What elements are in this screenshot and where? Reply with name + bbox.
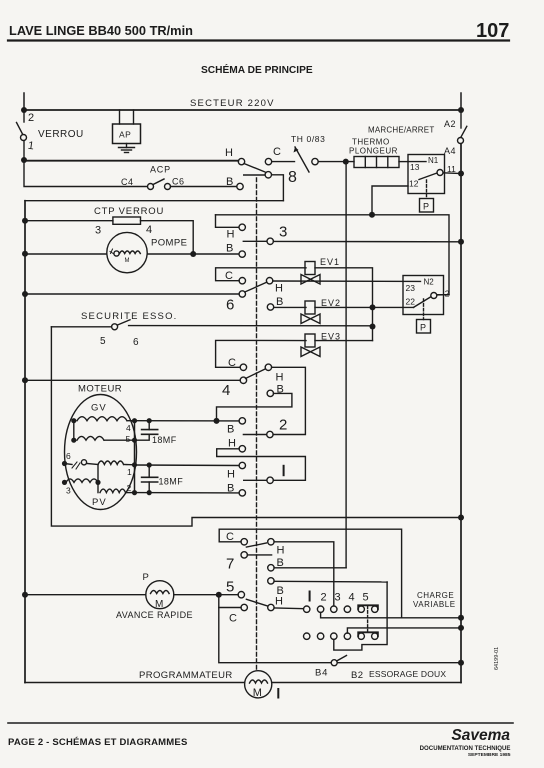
contact H terminal row5 [268, 604, 274, 610]
svg-text:4: 4 [126, 423, 131, 433]
pin 13 [408, 161, 426, 163]
svg-text:M: M [253, 687, 262, 699]
svg-text:SEPTEMBRE 1985: SEPTEMBRE 1985 [468, 752, 511, 758]
contact C terminal row7 [241, 539, 247, 545]
node EV junction 2 [370, 324, 376, 330]
header rule [8, 39, 509, 41]
wire CTP feed line [25, 200, 283, 202]
pin 11 wire to right rail [443, 172, 461, 175]
wire EV2 right to N2 pin22 [315, 306, 414, 308]
winding PV 2 [97, 482, 99, 492]
wire pin2 to right rail [321, 612, 461, 617]
svg-text:B2: B2 [351, 670, 363, 681]
contact main terminal row5 [238, 592, 244, 598]
wire C5 to feed vertical [219, 607, 241, 609]
node rail y627 [458, 625, 464, 631]
svg-text:N1: N1 [428, 156, 439, 165]
contact H terminal row7 [268, 539, 274, 545]
node 12-bus junction [369, 212, 375, 218]
contact common row2 [267, 431, 273, 437]
wire EV1 right loop down [315, 268, 373, 341]
svg-text:H: H [275, 283, 283, 295]
node rail y617 [458, 615, 464, 621]
contact C terminal row6 [239, 278, 245, 284]
svg-text:3: 3 [66, 486, 71, 496]
svg-text:C: C [228, 357, 236, 369]
svg-text:C: C [273, 146, 281, 158]
wire pompe line [25, 253, 239, 255]
footer rule [8, 722, 513, 724]
contact B terminal row4 [267, 390, 273, 396]
blade row3 [243, 240, 266, 242]
winding GV aux [71, 438, 76, 443]
svg-text:7: 7 [226, 556, 234, 573]
wire row5 B / charge box top [274, 580, 387, 583]
svg-text:2: 2 [28, 112, 34, 124]
dashed programmer line [256, 178, 258, 671]
pressostat box P (N2) [417, 320, 431, 334]
svg-text:MARCHE/ARRET: MARCHE/ARRET [368, 126, 434, 135]
wire row2 common loop to row4 H [272, 367, 306, 434]
svg-text:ESSORAGE DOUX: ESSORAGE DOUX [369, 669, 446, 679]
node TH junction [343, 159, 349, 165]
bottom border line [25, 682, 245, 684]
wire securite down-around to motor line [51, 327, 461, 526]
contact common row6 [239, 291, 245, 297]
svg-text:P: P [143, 572, 149, 583]
svg-text:18MF: 18MF [159, 477, 184, 487]
pins row A [304, 606, 310, 612]
svg-text:C4: C4 [121, 177, 134, 187]
svg-text:5: 5 [226, 579, 234, 596]
svg-text:B: B [226, 243, 233, 255]
node rail row4 [22, 377, 28, 383]
wire row3 common to right rail [273, 240, 461, 242]
svg-text:22: 22 [406, 297, 416, 307]
svg-text:PROGRAMMATEUR: PROGRAMMATEUR [139, 670, 233, 681]
contact B terminal (ACP) [237, 183, 243, 189]
svg-text:SECTEUR 220V: SECTEUR 220V [190, 98, 275, 109]
svg-text:5: 5 [126, 434, 131, 444]
svg-text:64199-01: 64199-01 [494, 647, 500, 670]
wire motor-4 line to row2 B [135, 420, 240, 422]
wire CTP out down to pompe line [141, 221, 194, 254]
svg-text:ACP: ACP [150, 165, 171, 175]
svg-text:C6: C6 [172, 177, 185, 187]
node rail B4 [458, 660, 464, 666]
wire row6 H to N2 pin23 [273, 280, 421, 282]
svg-text:107: 107 [476, 20, 509, 42]
wire charge box right side [334, 582, 387, 650]
antiparasite box AP [119, 110, 121, 124]
wire N1-12 left then down to bus 214.8 [372, 186, 408, 215]
wire motor-2 line to row1 B [135, 492, 240, 494]
svg-text:DOCUMENTATION TECHNIQUE: DOCUMENTATION TECHNIQUE [420, 745, 511, 752]
blade N2 [414, 297, 431, 307]
svg-text:12: 12 [409, 179, 419, 189]
svg-text:4: 4 [349, 592, 355, 604]
node CTP tap [22, 218, 28, 224]
blade row1 [244, 479, 267, 481]
svg-text:23: 23 [406, 283, 416, 293]
pin 2 stub [437, 294, 449, 296]
svg-text:H: H [277, 545, 285, 557]
contact H terminal [238, 158, 244, 164]
contact B terminal row6 [267, 304, 273, 310]
contact B terminal row1 [239, 490, 245, 496]
svg-text:M: M [125, 258, 130, 264]
svg-text:13: 13 [410, 162, 420, 172]
contact H terminal row2 [239, 446, 245, 452]
svg-text:Savema: Savema [451, 727, 510, 744]
node rail avance [22, 592, 28, 598]
contact common row1 [267, 477, 273, 483]
svg-text:VERROU: VERROU [38, 129, 84, 140]
contact H terminal row1 [239, 462, 245, 468]
node right top junction [458, 107, 464, 113]
svg-text:SCHÉMA DE PRINCIPE: SCHÉMA DE PRINCIPE [201, 63, 313, 76]
svg-text:H: H [225, 147, 233, 159]
contact common row3 [267, 238, 273, 244]
wire row2 H loop to row1 common [217, 449, 306, 481]
node left top junction [21, 107, 27, 113]
svg-text:H: H [227, 229, 235, 241]
svg-text:A2: A2 [444, 119, 456, 129]
node rail row6 [22, 291, 28, 297]
svg-text:2: 2 [279, 417, 287, 434]
node rail y517 [458, 515, 464, 521]
blade row8 [244, 164, 265, 173]
svg-text:EV1: EV1 [320, 257, 340, 267]
svg-text:1: 1 [27, 140, 35, 153]
wire EV3 right up to junction [315, 340, 373, 342]
bridge bar row A [358, 605, 378, 609]
node pompe rail tap [22, 251, 28, 257]
svg-text:PAGE 2 - SCHÉMAS ET DIAGRAMMES: PAGE 2 - SCHÉMAS ET DIAGRAMMES [8, 737, 187, 748]
svg-text:B4: B4 [315, 668, 328, 679]
svg-text:A4: A4 [444, 146, 456, 156]
node pompe junction [190, 251, 196, 257]
svg-text:6: 6 [133, 337, 139, 348]
wire H5 to pin1 [274, 607, 303, 610]
wire stub above left rail [23, 93, 25, 110]
contact B terminal row2 [239, 418, 245, 424]
node avance junction [216, 592, 222, 598]
svg-text:M: M [155, 599, 163, 610]
node H-rail left junction [21, 157, 27, 163]
resistor CTP [25, 220, 113, 222]
svg-text:B: B [227, 424, 234, 436]
svg-text:EV2: EV2 [321, 298, 341, 308]
left rail lower [24, 201, 26, 683]
blade row4 [246, 369, 266, 379]
motor POMPE [107, 232, 147, 272]
svg-text:H: H [276, 372, 284, 384]
svg-text:POMPE: POMPE [151, 238, 187, 249]
dashed bridge link [367, 606, 369, 633]
svg-text:H: H [228, 438, 236, 450]
blade row6 [245, 282, 267, 292]
svg-text:4: 4 [222, 382, 230, 399]
svg-text:B: B [277, 585, 284, 597]
wire pv left vertical [97, 465, 99, 483]
svg-text:P: P [423, 202, 429, 212]
header title [9, 20, 509, 42]
node 11 junction [458, 171, 464, 177]
svg-text:PLONGEUR: PLONGEUR [349, 147, 398, 156]
svg-text:6: 6 [66, 451, 71, 461]
svg-text:C: C [229, 613, 237, 625]
relay N1 box [408, 155, 445, 194]
ground below AP [126, 144, 128, 148]
blade row2 [243, 434, 266, 436]
wire common feed row4 [25, 379, 240, 381]
contact H terminal row4 [265, 364, 271, 370]
contact common row8 [265, 172, 271, 178]
wire C6 to B [171, 186, 237, 188]
winding GV main [71, 418, 76, 423]
contact H terminal row6 [266, 278, 272, 284]
blade row5 [246, 599, 267, 606]
wire avance line left [25, 594, 146, 596]
svg-text:CHARGE: CHARGE [417, 591, 454, 600]
contact B terminal row5 [268, 578, 274, 584]
svg-text:6: 6 [226, 297, 234, 314]
wire B4 feed vertical [219, 595, 331, 663]
svg-text:2: 2 [445, 289, 450, 299]
svg-text:3: 3 [95, 225, 101, 237]
svg-text:5: 5 [100, 336, 106, 347]
wire motor-1 line to row1 H [135, 464, 240, 467]
pins row B [304, 633, 310, 639]
node EV junction 1 [370, 304, 376, 310]
capacitor C2 18MF [148, 465, 150, 477]
capacitor C1 18MF [148, 421, 150, 430]
svg-text:4: 4 [146, 224, 152, 236]
contact common row4 [240, 377, 246, 383]
wire left rail down to ACP line [24, 160, 147, 187]
dashed link N1 to P [426, 180, 428, 199]
contact C terminal [265, 158, 271, 164]
wire row4 C loop to EV3 [216, 340, 306, 367]
wire row7 mid stub [247, 554, 271, 556]
pressostat box P (N1) [420, 199, 434, 213]
switch B4 [331, 660, 337, 666]
svg-text:VARIABLE: VARIABLE [413, 600, 456, 609]
big label 1 [283, 466, 285, 475]
node row4-B loop junction [214, 418, 220, 424]
svg-text:H: H [275, 596, 283, 608]
svg-text:C: C [225, 270, 233, 282]
motor terminal bus vertical [134, 421, 136, 493]
wire avance line right [174, 594, 238, 596]
wire secteur top rail [24, 109, 461, 111]
winding PV 1 [98, 461, 124, 465]
wire common stub [244, 174, 265, 176]
wire row4 B loop down to motor-4 line [217, 393, 292, 421]
wire row3 H loop [216, 215, 239, 228]
bridge bar row B [358, 632, 378, 636]
wire row6 B to EV2 [274, 306, 306, 308]
wire row7 C loop top [219, 529, 401, 618]
motor body ellipse [65, 395, 137, 510]
wire row7 B to bus x346 [274, 567, 346, 569]
contact mid terminal row7 [241, 552, 247, 558]
svg-text:LAVE LINGE BB40 500 TR/min: LAVE LINGE BB40 500 TR/min [9, 23, 193, 38]
wire row8 common loop down to CTP feed [272, 175, 284, 201]
svg-text:GV: GV [91, 403, 107, 414]
svg-text:18MF: 18MF [152, 435, 177, 445]
svg-text:2: 2 [127, 483, 132, 493]
wire row6 C loop to EV1 [216, 268, 306, 281]
svg-text:B: B [276, 296, 283, 308]
contact C terminal row4 [240, 364, 246, 370]
wire inside-left vertical [73, 421, 75, 441]
contact H terminal row3 [239, 224, 245, 230]
svg-text:PV: PV [92, 497, 107, 508]
svg-text:3: 3 [335, 592, 341, 604]
wire row7 H to pin3 column [274, 542, 334, 606]
svg-text:2: 2 [321, 592, 327, 604]
wire bus y214.8 to x449 down to N2 pin2 [216, 215, 450, 295]
switch ACP C4-C6 [148, 184, 154, 190]
vertical TH phase bus x346 [345, 162, 347, 568]
wire H rail [24, 160, 238, 162]
svg-text:MOTEUR: MOTEUR [78, 384, 122, 395]
relay N2 box [403, 276, 444, 315]
svg-text:H: H [227, 469, 235, 481]
svg-text:P: P [420, 323, 426, 333]
contact B terminal row7 [268, 565, 274, 571]
svg-text:1: 1 [127, 467, 132, 477]
svg-text:5: 5 [363, 592, 369, 604]
switch securite 5-6 [51, 326, 111, 328]
contact C terminal row5 [241, 604, 247, 610]
wire common feed row6 [25, 293, 239, 295]
svg-text:AVANCE RAPIDE: AVANCE RAPIDE [116, 610, 193, 620]
svg-text:THERMO: THERMO [352, 138, 390, 147]
svg-text:C: C [226, 531, 234, 543]
contact B terminal row3 [239, 251, 245, 257]
blade row7 [246, 543, 266, 547]
switch A2/A4 marche-arret [460, 93, 462, 110]
svg-text:8: 8 [288, 169, 297, 186]
svg-text:B: B [227, 483, 234, 495]
dashed link N2 to P [423, 299, 425, 320]
pin labels 1 2 3 4 5 [309, 592, 311, 601]
svg-text:CTP VERROU: CTP VERROU [94, 206, 164, 217]
svg-text:11: 11 [447, 164, 456, 174]
svg-text:AP: AP [119, 130, 131, 140]
motor programmateur M [245, 671, 272, 698]
wire heater to N1 pin13 [399, 161, 408, 163]
wire pin4 row B to right rail [347, 628, 461, 633]
node right rail row3 [458, 239, 464, 245]
svg-text:TH 0/83: TH 0/83 [291, 134, 325, 144]
svg-text:3: 3 [279, 224, 287, 241]
wire right supply rail [460, 144, 462, 683]
svg-text:N2: N2 [424, 278, 435, 287]
